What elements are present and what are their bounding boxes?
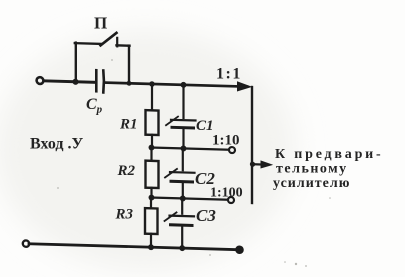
wire: R3 bottom lead [150, 234, 152, 248]
capacitor C3 top plate [170, 215, 195, 218]
switch P blade [101, 32, 117, 45]
wire: C1 top lead [182, 85, 184, 118]
capacitor C2 top plate [170, 171, 195, 174]
svg-text:тельному: тельному [276, 162, 348, 177]
svg-text:1:10: 1:10 [212, 133, 240, 149]
wire: R2 top lead [150, 148, 152, 161]
svg-text:C1: C1 [196, 118, 214, 134]
resistor R2 [146, 161, 159, 188]
wire: tap row 2 (1:100) [151, 198, 228, 200]
wire: C1 bottom lead [182, 129, 184, 148]
wire: R3 top lead [150, 198, 152, 209]
capacitor C1 top plate [171, 119, 196, 122]
svg-text:Вход .У: Вход .У [30, 136, 83, 153]
junction: bus / output stub [250, 162, 255, 167]
svg-text:R1: R1 [119, 117, 138, 133]
svg-text:R3: R3 [115, 207, 134, 223]
svg-text:усилителю: усилителю [273, 176, 350, 191]
junction: row1 / R column [149, 145, 154, 151]
junction: loop right on main wire [127, 81, 131, 86]
arrow: 1:1 tap into selector bus [238, 82, 251, 91]
svg-text:П: П [94, 14, 107, 33]
wire: main horizontal, Cp right plate to 1:1 arrow [105, 83, 248, 87]
wire: switch loop top-left [75, 42, 101, 45]
svg-text:1:1: 1:1 [216, 66, 242, 83]
capacitor Cp right plate [102, 70, 105, 92]
terminal bottom-right (filled) [236, 246, 244, 254]
wire: C3 bottom lead [181, 227, 183, 249]
terminal bottom-left [23, 240, 29, 247]
wire: C3 top lead [181, 198, 183, 213]
wire: tap row 1 (1:10) [151, 148, 229, 150]
switch P right contact tick [116, 38, 118, 47]
junction: bottom / C column [180, 245, 185, 251]
wire: switch loop right vertical [128, 46, 130, 84]
svg-text:1:100: 1:100 [210, 186, 243, 201]
wire: R1 top lead [151, 84, 153, 110]
wire: switch loop left vertical [75, 43, 77, 82]
terminal 1:100 [228, 197, 234, 203]
wire: bottom common [29, 244, 237, 250]
input terminal (top left) [37, 77, 44, 84]
capacitor C2 top plate diagonal tick [165, 169, 177, 178]
junction: main wire / R column [150, 81, 155, 86]
scan speckles [57, 59, 331, 267]
junction: row1 / C column [181, 146, 186, 152]
resistor R3 [145, 208, 158, 234]
wire: C2 bottom lead [182, 183, 184, 198]
resistor R1 [146, 110, 159, 135]
capacitor C1 top plate diagonal tick [166, 116, 178, 125]
terminal 1:10 [229, 147, 235, 153]
junction: bottom / R column [148, 244, 153, 250]
svg-text:R2: R2 [117, 163, 136, 179]
junction: row2 / R column [149, 195, 154, 201]
junction: main wire / C column [181, 82, 186, 88]
arrow: output to preamplifier [261, 161, 272, 168]
capacitor C3 top plate diagonal tick [165, 212, 177, 221]
junction: row2 / C column [180, 196, 185, 202]
selector bus vertical [251, 87, 253, 203]
wire: switch loop top-right [117, 44, 130, 47]
svg-text:К предвари-: К предвари- [275, 147, 384, 162]
wire: C2 top lead [182, 148, 184, 170]
wire: output stub from bus [252, 163, 264, 166]
svg-text:C3: C3 [196, 206, 216, 225]
wire: R2 bottom lead [150, 188, 152, 198]
capacitor C1 bottom plate [172, 126, 194, 130]
junction: main wire / switch loop left [73, 79, 79, 85]
capacitor C3 bottom plate [171, 223, 193, 227]
capacitor C2 bottom plate [171, 180, 193, 184]
capacitor Cp left plate [95, 70, 98, 91]
wire: main horizontal, input to Cp left plate [44, 81, 96, 82]
wire: R1 bottom lead [151, 135, 153, 148]
